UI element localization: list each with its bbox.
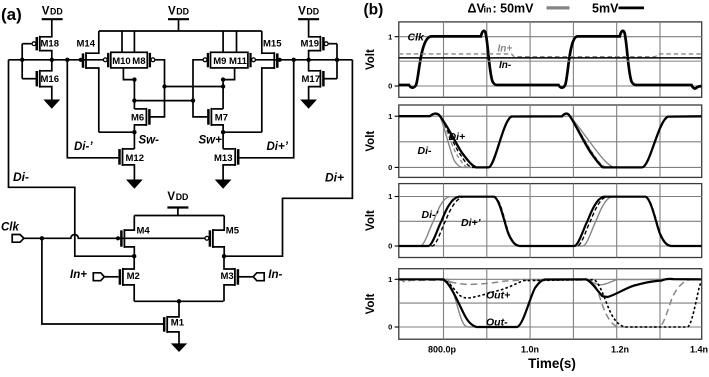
junction tail node	[177, 299, 181, 303]
pmos pair M9 M11 body	[211, 52, 248, 68]
svg-text:M2: M2	[127, 271, 140, 282]
label Di- (panel)	[418, 145, 433, 157]
wire Sw+ horizontal	[223, 131, 262, 133]
panel Di-prime waveforms	[365, 184, 702, 258]
label Di+' (panel)	[461, 217, 482, 229]
wire M1 source down	[167, 332, 179, 344]
junction Di-' branch	[65, 58, 69, 62]
wire M10 source up	[121, 31, 123, 52]
wire Sw+ down to M13	[222, 132, 224, 149]
wire net Di+ trunk	[224, 60, 352, 256]
svg-text:Volt: Volt	[365, 210, 377, 231]
svg-text:Time(s): Time(s)	[528, 356, 576, 371]
legend black line	[619, 7, 645, 10]
label In+ (panel)	[498, 43, 513, 54]
svg-text:0: 0	[388, 242, 392, 251]
svg-text:Volt: Volt	[365, 293, 377, 314]
wire Clk to M4/M5 gates	[24, 235, 205, 239]
wire M15 drain down to Sw+	[262, 68, 275, 132]
junction Di+' branch	[292, 58, 296, 62]
svg-text:M7: M7	[215, 112, 228, 123]
label Out+ (panel)	[486, 290, 510, 302]
svg-text:Sw-: Sw-	[139, 135, 160, 147]
svg-text:M9: M9	[213, 56, 226, 67]
svg-text:Di-’: Di-’	[74, 141, 93, 153]
wire M5 source up	[213, 216, 224, 231]
wire M9 source up	[222, 31, 224, 52]
trace Dip black dashed	[399, 197, 702, 246]
nmos M7	[208, 108, 228, 126]
trace Dip gray solid	[399, 197, 702, 246]
svg-text:Di-’: Di-’	[422, 209, 440, 221]
label Sw-	[139, 135, 160, 147]
wire M6 gate	[150, 87, 164, 117]
svg-text:Di+’: Di+’	[461, 217, 482, 229]
wire M16 drain up	[40, 60, 52, 71]
port In+	[93, 273, 104, 281]
svg-text:M17: M17	[302, 74, 320, 85]
junction cross node right	[191, 98, 195, 102]
svg-text:800.0p: 800.0p	[428, 345, 457, 355]
svg-text:In+: In+	[498, 43, 513, 54]
svg-text:1.2n: 1.2n	[611, 345, 629, 355]
pmos pair M10 M8 body	[111, 52, 148, 68]
junction node Di+ bottom	[222, 254, 226, 258]
wire M9/M11 drain to Out+	[223, 68, 235, 80]
trace Out- black solid	[399, 279, 702, 327]
power VDD (bottom center)	[167, 191, 188, 208]
wire VDD stem center	[178, 19, 180, 31]
svg-text:M4: M4	[137, 225, 151, 236]
svg-text:Out+: Out+	[486, 290, 510, 302]
pmos M9 gate	[203, 53, 208, 67]
junction node Di- bottom	[132, 254, 136, 258]
label Di+ (panel)	[449, 131, 466, 143]
trace In- gray	[399, 60, 702, 62]
wire M16 source down	[40, 87, 52, 101]
svg-text:V: V	[167, 191, 175, 203]
svg-text:Sw+: Sw+	[199, 135, 223, 147]
svg-text:M19: M19	[301, 38, 319, 49]
ground under M12	[127, 180, 141, 188]
ground under M16	[45, 100, 60, 108]
junction Out- node	[132, 98, 136, 102]
wire Sw- down to M12	[133, 132, 135, 149]
x tick 1.2n	[611, 345, 629, 355]
wire M18 drain to node	[40, 51, 52, 60]
wire M8 source up	[133, 31, 135, 52]
wire M10/M8 drain to Out-	[123, 68, 134, 80]
wire M7 source to Sw+	[211, 125, 223, 132]
wire VDD stem to M19 source	[309, 19, 321, 37]
wire M15 source up	[262, 31, 275, 53]
label Di+'	[267, 141, 289, 153]
svg-text:DD: DD	[176, 7, 189, 17]
wire M17 drain up	[309, 60, 321, 71]
svg-text:V: V	[298, 6, 306, 18]
svg-text:M15: M15	[263, 38, 282, 49]
label In-	[268, 269, 282, 281]
label Sw+	[199, 135, 223, 147]
panel Out waveforms	[365, 269, 702, 340]
wire M13 drain from Sw+	[223, 148, 234, 150]
svg-text:Volt: Volt	[365, 131, 377, 152]
svg-text:(a): (a)	[1, 5, 22, 24]
wire M3 source down	[224, 285, 235, 301]
svg-text:M10: M10	[112, 56, 130, 67]
nmos M2	[120, 268, 140, 286]
label Clk	[1, 222, 20, 234]
wire M14 source up	[86, 31, 99, 53]
label (a)	[1, 5, 22, 24]
trace Di black solid	[399, 114, 702, 168]
wire tail rail	[134, 300, 223, 302]
wire M5 drain down	[213, 247, 224, 256]
wire Di-' vertical to M12 gate	[67, 60, 118, 158]
wire M7 drain from Out+	[212, 108, 223, 110]
pmos M14	[77, 38, 96, 69]
label Di+	[325, 171, 344, 185]
x tick 1.0n	[521, 345, 539, 355]
wire In- to M3 gate	[239, 276, 253, 278]
wire Sw- horizontal	[99, 131, 135, 133]
svg-text:V: V	[42, 6, 50, 18]
svg-text:0: 0	[388, 82, 392, 91]
svg-text:1: 1	[388, 275, 392, 284]
svg-text:Clk: Clk	[1, 222, 20, 234]
svg-text:1: 1	[388, 32, 392, 41]
svg-text:1.0n: 1.0n	[521, 345, 539, 355]
wire M7 gate	[193, 101, 208, 117]
wire M9 gate to cross node	[193, 60, 203, 101]
svg-text:in: in	[484, 4, 492, 14]
wire node Di-' bus (left)	[9, 59, 105, 61]
ground under M17	[301, 100, 316, 108]
wire M6 source to Sw-	[134, 125, 146, 132]
wire Di+' vertical to M13 gate	[239, 60, 293, 158]
svg-text:M18: M18	[41, 38, 59, 49]
wire cross Out- to M7 gate bus	[134, 100, 193, 102]
x tick 1.4n	[690, 345, 708, 355]
pmos M8 gate	[150, 53, 155, 67]
nmos M3	[221, 268, 238, 286]
wire VDD rail top	[99, 30, 262, 32]
panel Di waveforms	[365, 105, 702, 177]
svg-text:1: 1	[388, 112, 392, 121]
wire node Di+' bus (right)	[255, 59, 352, 61]
junction cross node left	[162, 84, 166, 88]
junction Clk branch	[40, 236, 44, 240]
svg-text:M11: M11	[229, 56, 248, 67]
wire M2 source down	[123, 285, 134, 301]
svg-text:M13: M13	[214, 153, 232, 164]
wire M14 drain down to Sw-	[86, 68, 99, 132]
junction Out+ cross	[221, 84, 225, 88]
legend 5mV	[592, 1, 619, 15]
svg-text:V: V	[168, 6, 176, 18]
svg-text:In+: In+	[70, 269, 87, 281]
nmos M17	[302, 70, 324, 88]
junction node Sw+	[221, 130, 225, 134]
junction Out+ top	[221, 77, 225, 81]
wire VDD rail bottom	[134, 215, 224, 217]
wire M13 source down	[223, 165, 235, 180]
wire M2 drain up	[123, 256, 134, 269]
ground under M1	[172, 344, 186, 351]
trace In-	[399, 57, 702, 59]
svg-text:M16: M16	[41, 74, 59, 85]
trace Out+ gray long-dash	[399, 279, 702, 327]
svg-text:DD: DD	[176, 192, 189, 202]
power VDD (left)	[42, 6, 63, 20]
svg-text:M12: M12	[126, 153, 144, 164]
svg-text:Volt: Volt	[365, 49, 377, 70]
port Clk	[12, 235, 24, 243]
trace Out gray solid	[399, 279, 702, 327]
svg-text:1: 1	[388, 192, 392, 201]
svg-text:0: 0	[388, 323, 392, 332]
svg-text:M5: M5	[226, 225, 240, 236]
wire M12 source down	[123, 165, 135, 180]
junction left trunk tap	[20, 58, 24, 62]
pmos M15	[263, 38, 282, 69]
junction M19/M17 drains	[306, 58, 310, 62]
svg-text:M3: M3	[221, 271, 234, 282]
wire M18 gate	[22, 43, 32, 45]
label Di-	[13, 170, 29, 184]
wire cross Out+ to M6 gate bus	[165, 86, 224, 88]
svg-text:Clk: Clk	[408, 31, 426, 43]
pmos M5	[205, 225, 240, 248]
legend delta-Vin 50mV	[468, 1, 535, 15]
pmos M4	[116, 225, 151, 248]
trace Clk	[399, 31, 702, 89]
wire VDD stem to M18 source	[40, 19, 52, 37]
power VDD (top center)	[168, 6, 189, 20]
svg-text:DD: DD	[306, 7, 319, 17]
wire In+ to M2 gate	[104, 276, 118, 278]
port In-	[253, 273, 264, 281]
label Di-' (panel)	[422, 209, 440, 221]
junction M18/M16 drains	[50, 58, 54, 62]
svg-text:: 50mV: : 50mV	[493, 1, 535, 15]
label (b)	[364, 2, 384, 19]
nmos M16	[37, 70, 59, 88]
pmos M18	[32, 36, 59, 52]
nmos M6	[131, 108, 149, 126]
wire M4 drain down	[124, 247, 134, 256]
wire net Di- trunk	[9, 60, 135, 256]
wire M16 gate	[22, 78, 36, 80]
label Di-'	[74, 141, 93, 153]
legend gray line	[547, 6, 570, 9]
wire Out+ vertical	[222, 80, 224, 109]
wire tail to M1 drain	[167, 301, 179, 317]
label Clk (panel)	[408, 31, 426, 43]
svg-text:1.4n: 1.4n	[690, 345, 708, 355]
trace Di black dashed	[399, 114, 702, 168]
trace Out+ black short-dash	[399, 280, 702, 327]
wire M3 drain up	[224, 256, 235, 269]
svg-text:0: 0	[388, 163, 392, 172]
svg-text:DD: DD	[50, 7, 63, 17]
wire VDD stem bottom	[177, 208, 179, 216]
svg-text:Di+: Di+	[449, 131, 466, 143]
wire Out- vertical	[133, 80, 135, 109]
panel Clk/In waveforms	[365, 22, 702, 97]
wire M19 gate	[328, 43, 337, 45]
svg-text:In-: In-	[268, 269, 282, 281]
svg-text:Di+’: Di+’	[267, 141, 289, 153]
svg-text:Di-: Di-	[418, 145, 433, 157]
wire Clk to M1 gate	[42, 238, 163, 324]
nmos M1	[164, 316, 185, 333]
svg-text:(b): (b)	[364, 2, 384, 19]
pmos M11 gate	[251, 53, 256, 67]
wire M6 drain from Out-	[134, 108, 145, 110]
wire inverter-right input vertical	[336, 44, 338, 79]
svg-text:Di+: Di+	[325, 171, 344, 185]
x tick 800.0p	[428, 345, 457, 355]
svg-text:Di-: Di-	[13, 170, 29, 184]
nmos M13	[214, 148, 238, 166]
svg-text:M8: M8	[132, 56, 145, 67]
trace In+ (gray dashed)	[399, 54, 702, 57]
nmos M12	[120, 148, 144, 166]
pmos M10 gate	[103, 53, 108, 67]
svg-text:In-: In-	[499, 60, 512, 71]
svg-text:5mV: 5mV	[592, 1, 619, 15]
power VDD (right)	[298, 6, 319, 20]
wire M17 gate	[324, 78, 337, 80]
trace Di gray dashed	[399, 114, 702, 168]
wire inverter-left input vertical	[21, 44, 23, 79]
wire M12 drain from Sw-	[123, 148, 135, 150]
pmos M19	[301, 36, 329, 52]
wire M19 drain to node	[309, 51, 321, 60]
label In+	[70, 269, 87, 281]
wire M8 gate to cross node	[155, 60, 164, 87]
ground under M13	[216, 180, 231, 188]
x axis title Time(s)	[528, 356, 576, 371]
wire M4 source up	[124, 216, 134, 231]
junction node Sw-	[132, 130, 136, 134]
label Out- (panel)	[486, 316, 508, 328]
trace Di gray solid	[399, 114, 702, 168]
trace Dip black solid	[399, 197, 702, 246]
label In- (panel)	[499, 60, 512, 71]
svg-text:M6: M6	[131, 112, 144, 123]
wire M17 source down	[309, 87, 321, 101]
wire M11 source up	[236, 31, 238, 52]
junction right inverter input tap	[335, 58, 339, 62]
svg-text:M1: M1	[171, 317, 185, 328]
junction Out- top	[132, 77, 136, 81]
svg-text:Out-: Out-	[486, 316, 508, 328]
svg-text:M14: M14	[77, 38, 96, 49]
